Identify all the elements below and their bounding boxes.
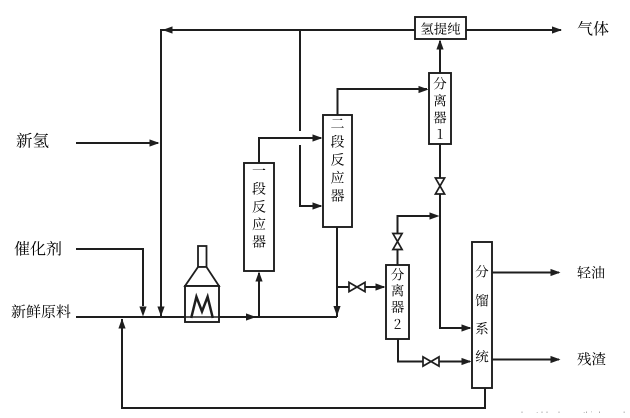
- label: 分馏系统 (fractionation system): [476, 265, 489, 363]
- arrowhead: feed into first-stage reactor bottom: [255, 272, 262, 282]
- wire: catalyst 催化剂 feed line: [76, 249, 143, 306]
- vessel: first-stage reactor 一段反应器: [244, 163, 274, 271]
- label: 新氢 (fresh hydrogen): [17, 133, 49, 148]
- wire: hydrogen branch down from top recycle line (upper segment): [299, 30, 301, 131]
- mixer M: feed hopper neck: [198, 246, 207, 267]
- arrowhead: residue outlet: [551, 356, 561, 363]
- vessel: hydrogen purifier 氢提纯: [415, 17, 466, 39]
- wire: hydrogen branch down (lower segment, after line crossing): [300, 145, 321, 206]
- arrowhead: separator 2 overhead joining line: [430, 212, 440, 219]
- label: 一段反应器 (first-stage reactor): [252, 168, 265, 247]
- wire: fractionator bottoms recycle back to feed line: [122, 319, 485, 408]
- arrowhead: recycle gas joining feed line: [157, 307, 164, 317]
- valve V2: separator-2 overhead valve: [393, 234, 402, 250]
- mixer M: internal feed line through body: [185, 316, 219, 318]
- arrowhead: into separator 2 inlet: [376, 283, 386, 290]
- wire: light oil product line to 轻油: [492, 272, 559, 274]
- mixer M: body: [185, 286, 219, 322]
- wire: fresh feed 新鲜原料 main line to mixer and reactor riser: [76, 316, 337, 318]
- label: 氢提纯 (hydrogen purifier): [421, 22, 460, 34]
- arrowhead: into second-stage reactor upper inlet: [313, 134, 323, 141]
- wire: riser from feed line up into first-stage reactor: [258, 273, 260, 317]
- arrowhead: reactor bottoms joining feed line: [333, 306, 340, 316]
- mixer M: letter M: [191, 297, 213, 318]
- arrowhead: hydrogen into second-stage reactor lower inlet: [313, 202, 323, 209]
- arrowhead: into hydrogen purifier: [436, 40, 443, 50]
- wire: recycle-gas line from hydrogen-purifier to left riser (top): [161, 30, 415, 316]
- valve V1: separator-1 bottoms letdown valve: [435, 178, 444, 194]
- vessel: fractionation system 分馏系统: [472, 242, 492, 388]
- arrowhead: light oil outlet: [551, 269, 561, 276]
- label: 分离器1 (separator 1): [434, 77, 447, 139]
- label: 残渣 (residue): [577, 352, 605, 365]
- arrowhead: into fractionation system (lower inlet): [462, 358, 472, 365]
- wire: separator 1 bottoms down through valve V1 to fractionation system: [440, 144, 470, 328]
- label: 二段反应器 (second-stage reactor): [331, 118, 344, 201]
- arrowhead: recycle up into feed line: [118, 319, 125, 329]
- label: 新鲜原料 (fresh feed): [12, 304, 71, 318]
- valve V3: separator-2 inlet valve: [349, 282, 365, 291]
- wire: second-stage reactor bottoms line down to feed line: [336, 227, 338, 317]
- wire: separator 1 overhead to hydrogen purifier: [439, 41, 441, 73]
- wire: second-stage reactor overhead to separator 1: [338, 89, 428, 115]
- arrowhead: into fractionation system (upper inlet): [462, 324, 472, 331]
- arrowhead: catalyst into feed line: [139, 307, 146, 317]
- wire: residue product line to 残渣: [492, 359, 559, 361]
- arrowhead: feed flow after mixer: [246, 313, 256, 320]
- label: 轻油 (light oil): [577, 266, 604, 279]
- vessel: second-stage reactor 二段反应器: [323, 115, 352, 227]
- vessel: separator 2 分离器2: [386, 265, 409, 339]
- arrowhead: into separator 1 inlet: [419, 86, 429, 93]
- wire: separator 2 bottoms through valve V4 to fractionation system: [398, 339, 470, 362]
- wire: fresh hydrogen 新氢 feed line: [76, 142, 158, 144]
- wire: first-stage reactor overhead to second-stage reactor: [259, 138, 321, 163]
- arrowhead: recycle gas turning down at top-left corner: [163, 26, 173, 33]
- label: 气体 (gas product): [578, 21, 609, 36]
- wire: separator 2 overhead up through valve V2 joining separator-1 bottoms line: [398, 216, 437, 265]
- label: 催化剂 (catalyst): [15, 241, 62, 256]
- mixer M: hopper funnel: [185, 267, 219, 286]
- vessel: separator 1 分离器1: [429, 73, 451, 144]
- label: 分离器2 (separator 2): [391, 268, 404, 329]
- wire: branch through valve V3 into separator 2: [337, 286, 384, 288]
- valve V4: separator-2 bottoms valve: [423, 357, 439, 366]
- wire: gas product line to 气体: [466, 29, 561, 31]
- arrowhead: gas product outlet: [552, 26, 562, 33]
- arrowhead: fresh hydrogen into riser: [150, 139, 160, 146]
